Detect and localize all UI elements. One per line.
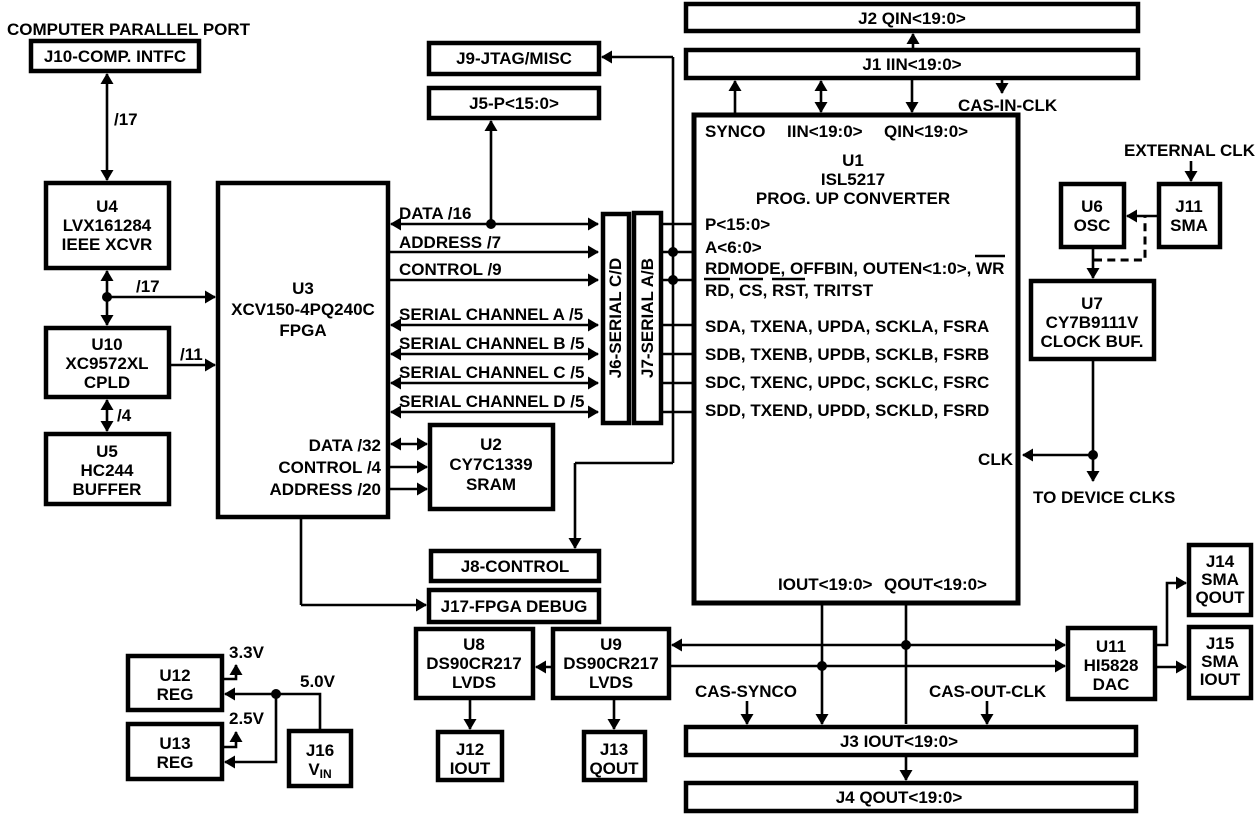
svg-text:J15: J15	[1206, 634, 1234, 653]
svg-text:RDMODE, OFFBIN, OUTEN<1:0>, WR: RDMODE, OFFBIN, OUTEN<1:0>, WR	[705, 259, 1004, 278]
svg-text:HI5828: HI5828	[1084, 656, 1139, 675]
svg-text:BUFFER: BUFFER	[73, 480, 142, 499]
svg-text:U11: U11	[1096, 637, 1126, 656]
svg-text:SDD, TXEND, UPDD, SCKLD, FSRD: SDD, TXEND, UPDD, SCKLD, FSRD	[705, 401, 989, 420]
svg-text:CAS-IN-CLK: CAS-IN-CLK	[958, 96, 1058, 115]
svg-text:LVDS: LVDS	[589, 673, 633, 692]
svg-text:RD, CS, RST, TRITST: RD, CS, RST, TRITST	[705, 281, 874, 300]
svg-text:IOUT: IOUT	[450, 759, 491, 778]
svg-text:J13: J13	[600, 740, 628, 759]
svg-text:ADDRESS /7: ADDRESS /7	[399, 233, 501, 252]
svg-text:ISL5217: ISL5217	[821, 170, 885, 189]
svg-text:REG: REG	[157, 685, 194, 704]
svg-text:XC9572XL: XC9572XL	[65, 354, 148, 373]
svg-text:J12: J12	[456, 740, 484, 759]
svg-text:QIN<19:0>: QIN<19:0>	[884, 122, 968, 141]
svg-text:COMPUTER PARALLEL PORT: COMPUTER PARALLEL PORT	[7, 20, 251, 39]
svg-text:CY7C1339: CY7C1339	[449, 455, 532, 474]
svg-text:CONTROL /4: CONTROL /4	[278, 458, 381, 477]
svg-text:SMA: SMA	[1170, 216, 1208, 235]
svg-text:J1 IIN<19:0>: J1 IIN<19:0>	[862, 55, 961, 74]
svg-text:EXTERNAL CLK: EXTERNAL CLK	[1124, 141, 1256, 160]
svg-text:J16: J16	[306, 741, 334, 760]
svg-text:ADDRESS /20: ADDRESS /20	[270, 480, 381, 499]
svg-text:CAS-SYNCO: CAS-SYNCO	[695, 682, 797, 701]
svg-text:TO DEVICE CLKS: TO DEVICE CLKS	[1033, 488, 1175, 507]
svg-text:J11: J11	[1175, 197, 1202, 216]
svg-text:SERIAL CHANNEL C /5: SERIAL CHANNEL C /5	[399, 363, 584, 382]
svg-text:J6-SERIAL C/D: J6-SERIAL C/D	[606, 258, 625, 379]
svg-text:CLOCK BUF.: CLOCK BUF.	[1041, 332, 1144, 351]
svg-text:/4: /4	[117, 406, 132, 425]
svg-text:IOUT<19:0>: IOUT<19:0>	[778, 575, 873, 594]
svg-text:CAS-OUT-CLK: CAS-OUT-CLK	[929, 682, 1047, 701]
svg-text:DS90CR217: DS90CR217	[426, 654, 521, 673]
svg-text:U5: U5	[96, 442, 118, 461]
svg-text:J10-COMP. INTFC: J10-COMP. INTFC	[44, 47, 186, 66]
svg-text:SMA: SMA	[1201, 570, 1239, 589]
svg-text:DS90CR217: DS90CR217	[563, 654, 658, 673]
svg-text:OSC: OSC	[1074, 216, 1111, 235]
svg-text:U2: U2	[480, 435, 502, 454]
svg-text:SERIAL CHANNEL D /5: SERIAL CHANNEL D /5	[399, 392, 584, 411]
svg-text:IIN<19:0>: IIN<19:0>	[787, 122, 863, 141]
svg-text:SERIAL CHANNEL B /5: SERIAL CHANNEL B /5	[399, 334, 584, 353]
svg-text:CLK: CLK	[978, 450, 1014, 469]
svg-text:QOUT: QOUT	[589, 759, 639, 778]
svg-text:DATA /32: DATA /32	[309, 436, 381, 455]
svg-text:2.5V: 2.5V	[229, 709, 265, 728]
svg-text:SYNCO: SYNCO	[705, 122, 765, 141]
svg-text:QOUT<19:0>: QOUT<19:0>	[884, 575, 987, 594]
svg-text:5.0V: 5.0V	[300, 672, 336, 691]
svg-text:PROG. UP CONVERTER: PROG. UP CONVERTER	[756, 189, 950, 208]
svg-text:J3 IOUT<19:0>: J3 IOUT<19:0>	[840, 732, 958, 751]
svg-text:IOUT: IOUT	[1200, 670, 1241, 689]
svg-text:LVX161284: LVX161284	[63, 216, 152, 235]
svg-text:SMA: SMA	[1201, 652, 1239, 671]
svg-text:SDB, TXENB, UPDB, SCKLB, FSRB: SDB, TXENB, UPDB, SCKLB, FSRB	[705, 345, 989, 364]
svg-text:HC244: HC244	[81, 461, 134, 480]
svg-text:U6: U6	[1081, 197, 1103, 216]
svg-text:DATA /16: DATA /16	[399, 204, 471, 223]
svg-text:3.3V: 3.3V	[229, 643, 265, 662]
svg-text:J4 QOUT<19:0>: J4 QOUT<19:0>	[836, 788, 963, 807]
svg-text:DAC: DAC	[1093, 675, 1130, 694]
svg-text:SDA, TXENA, UPDA, SCKLA, FSRA: SDA, TXENA, UPDA, SCKLA, FSRA	[705, 317, 989, 336]
svg-text:U12: U12	[159, 666, 190, 685]
svg-text:SERIAL CHANNEL A /5: SERIAL CHANNEL A /5	[399, 305, 583, 324]
svg-text:FPGA: FPGA	[279, 321, 326, 340]
svg-text:J2 QIN<19:0>: J2 QIN<19:0>	[858, 9, 966, 28]
svg-text:J7-SERIAL A/B: J7-SERIAL A/B	[638, 258, 657, 378]
svg-text:J9-JTAG/MISC: J9-JTAG/MISC	[456, 49, 572, 68]
svg-text:/17: /17	[114, 110, 138, 129]
svg-text:/17: /17	[136, 277, 160, 296]
svg-text:J5-P<15:0>: J5-P<15:0>	[469, 94, 559, 113]
svg-text:J17-FPGA DEBUG: J17-FPGA DEBUG	[441, 597, 588, 616]
svg-text:LVDS: LVDS	[452, 673, 496, 692]
svg-text:U1: U1	[842, 151, 864, 170]
svg-text:U3: U3	[292, 279, 314, 298]
svg-text:J8-CONTROL: J8-CONTROL	[461, 557, 570, 576]
svg-text:XCV150-4PQ240C: XCV150-4PQ240C	[231, 300, 375, 319]
svg-text:J14: J14	[1206, 552, 1235, 571]
svg-text:CY7B9111V: CY7B9111V	[1046, 313, 1139, 332]
svg-text:A<6:0>: A<6:0>	[705, 238, 762, 257]
svg-text:/11: /11	[180, 345, 203, 364]
svg-text:SRAM: SRAM	[466, 475, 516, 494]
svg-text:U4: U4	[96, 197, 118, 216]
svg-text:P<15:0>: P<15:0>	[705, 215, 770, 234]
svg-text:U8: U8	[463, 635, 485, 654]
svg-text:U13: U13	[159, 734, 190, 753]
svg-text:IEEE XCVR: IEEE XCVR	[62, 235, 153, 254]
svg-text:U7: U7	[1081, 294, 1103, 313]
svg-text:SDC, TXENC, UPDC, SCKLC, FSRC: SDC, TXENC, UPDC, SCKLC, FSRC	[705, 373, 989, 392]
svg-text:REG: REG	[157, 753, 194, 772]
svg-text:U10: U10	[91, 335, 122, 354]
svg-text:CPLD: CPLD	[84, 373, 130, 392]
svg-text:QOUT: QOUT	[1195, 588, 1245, 607]
svg-text:CONTROL /9: CONTROL /9	[399, 260, 502, 279]
svg-text:U9: U9	[600, 635, 622, 654]
